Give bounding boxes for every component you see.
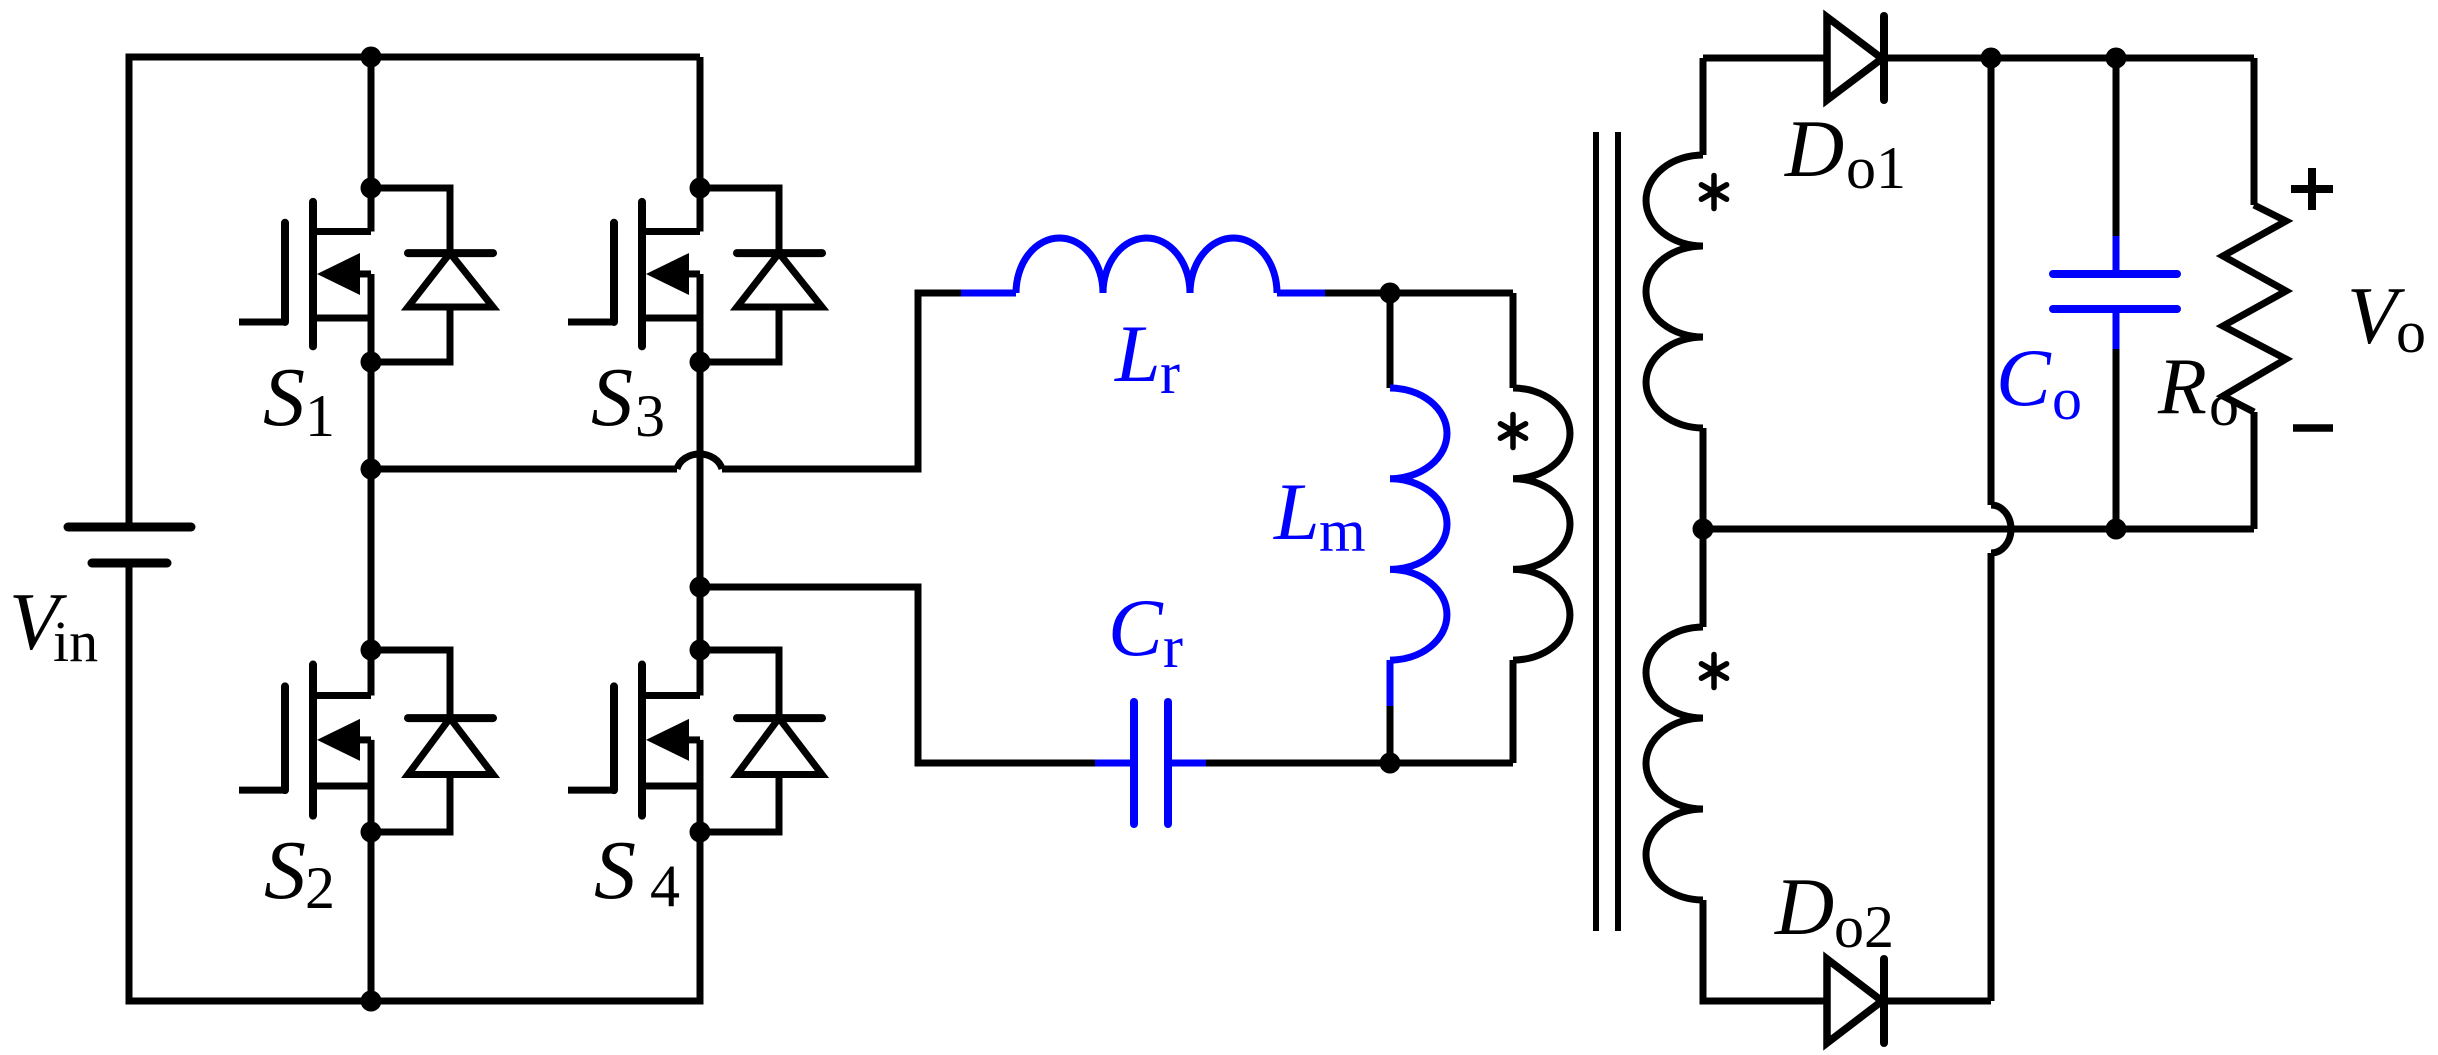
svg-text:4: 4 <box>650 853 680 919</box>
svg-text:o2: o2 <box>1834 894 1894 960</box>
svg-text:C: C <box>1996 332 2052 423</box>
svg-text:S: S <box>264 824 306 917</box>
svg-text:m: m <box>1319 498 1366 564</box>
svg-text:r: r <box>1160 340 1180 406</box>
svg-text:r: r <box>1163 614 1183 680</box>
svg-text:D: D <box>1784 103 1844 194</box>
svg-text:1: 1 <box>305 383 335 449</box>
svg-text:o: o <box>2209 372 2239 438</box>
svg-text:D: D <box>1774 861 1834 952</box>
svg-text:L: L <box>1273 466 1320 557</box>
svg-text:C: C <box>1108 582 1164 673</box>
svg-text:2: 2 <box>305 855 335 921</box>
svg-text:L: L <box>1114 308 1161 399</box>
svg-text:o: o <box>2396 299 2426 365</box>
svg-text:S: S <box>263 351 305 444</box>
svg-text:R: R <box>2157 343 2207 431</box>
svg-text:3: 3 <box>635 383 665 449</box>
svg-text:o: o <box>2052 366 2082 432</box>
svg-text:S: S <box>591 351 633 444</box>
svg-text:in: in <box>53 609 98 674</box>
svg-text:o1: o1 <box>1846 135 1906 201</box>
svg-text:S: S <box>594 824 636 917</box>
